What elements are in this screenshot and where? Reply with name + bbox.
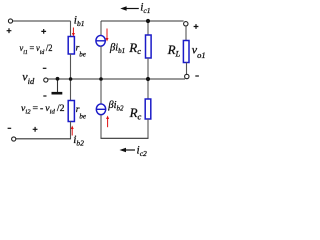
polarity plus v_o1 <box>194 24 199 29</box>
node dot ground/rail <box>56 77 60 81</box>
ground <box>52 92 63 95</box>
polarity minus v_i2 top <box>43 95 46 97</box>
wire top-left from terminal to r_be1 <box>13 20 71 22</box>
arrow i_b2 (red, up) <box>71 126 74 136</box>
resistor r_be2 <box>68 101 74 122</box>
polarity plus v_id top <box>7 28 12 33</box>
wire current source 2 bottom lead <box>100 115 102 139</box>
wire r_be1 bottom lead to middle rail and on to r_be2 <box>70 54 72 101</box>
node dot R_c/rail <box>146 77 150 81</box>
polarity minus v_o1 <box>195 75 199 77</box>
wire R_c1 bottom lead <box>147 58 149 79</box>
terminal output top <box>184 22 188 26</box>
wire between current sources across middle rail <box>100 46 102 104</box>
terminal common (middle-left) <box>44 78 48 82</box>
wire r_be1 top lead <box>70 21 72 37</box>
arrow i_b1 (red, down) <box>72 28 75 37</box>
polarity plus v_i1 <box>41 29 46 34</box>
ground stub <box>57 79 59 92</box>
wire r_be2 bottom lead <box>70 122 72 139</box>
current source beta-ib1 <box>96 35 105 46</box>
wire middle rail (emitter) <box>48 78 185 80</box>
wire bottom rail (collector 2) <box>101 137 149 139</box>
wire bottom-left from terminal to r_be2 <box>16 138 71 140</box>
arrow beta-ib2 (red, up) <box>106 116 109 128</box>
polarity plus v_i2 <box>33 127 38 132</box>
wire R_c2 bottom lead <box>147 119 149 138</box>
wire top rail (collector 1) <box>101 20 184 22</box>
resistor R_c2 <box>145 99 151 119</box>
wire R_c2 top lead <box>147 79 149 99</box>
resistor r_be1 <box>68 37 74 55</box>
arrow i_c1 (black, left) <box>120 6 139 10</box>
terminal input 2 (bottom-left) <box>12 137 16 141</box>
terminal output bottom <box>185 74 189 78</box>
node dot R_c1/top rail <box>146 19 150 23</box>
current source column top lead <box>100 21 102 35</box>
resistor R_c1 <box>146 35 152 58</box>
current source beta-ib2 <box>96 104 105 115</box>
wire R_c1 top lead <box>147 21 149 35</box>
arrow beta-ib1 (red, down) <box>106 29 109 42</box>
resistor R_L <box>183 41 189 63</box>
node dot source/rail <box>99 77 103 81</box>
terminal input 1 (top-left) <box>8 19 12 23</box>
wire R_L top lead <box>185 26 187 40</box>
node dot r_be/rail <box>69 77 73 81</box>
arrow i_c2 (black, left) <box>120 148 136 152</box>
wire R_L bottom lead <box>186 63 188 75</box>
polarity minus v_id bottom <box>8 127 12 129</box>
polarity minus v_i1 <box>43 67 47 69</box>
